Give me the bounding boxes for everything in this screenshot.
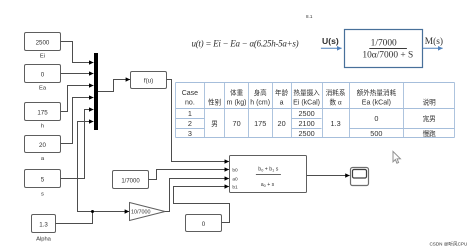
wire h to mux	[61, 86, 94, 112]
svg-text:1/7000: 1/7000	[121, 178, 140, 184]
blue arrow U(s) into picture block	[321, 47, 342, 49]
blue arrow M(s) out of picture block	[423, 47, 443, 49]
table grid	[176, 83, 455, 138]
wire a to mux	[61, 98, 94, 144]
svg-text:说明: 说明	[423, 97, 437, 106]
svg-text:Ea: Ea	[39, 86, 47, 92]
scope block	[351, 168, 369, 186]
svg-text:体重: 体重	[230, 88, 244, 97]
svg-text:2500: 2500	[298, 109, 314, 118]
wire Alpha branch to mux	[78, 122, 94, 212]
transfer function subsystem U1	[230, 156, 307, 193]
wire gain to a0	[165, 179, 229, 212]
constant block a (20)	[25, 136, 61, 163]
table data texts	[188, 109, 436, 138]
svg-text:a0 + s: a0 + s	[261, 182, 275, 188]
svg-text:500: 500	[370, 129, 382, 138]
constant block s (5)	[25, 170, 61, 198]
wire 0 to b1	[174, 187, 230, 223]
svg-text:5: 5	[41, 177, 45, 184]
svg-text:3: 3	[188, 129, 192, 138]
svg-text:b1: b1	[232, 185, 238, 191]
wire subsystem to scope	[307, 175, 350, 177]
svg-text:20: 20	[39, 142, 46, 149]
svg-text:慢跑: 慢跑	[423, 129, 437, 138]
picture transfer function box	[345, 30, 423, 68]
wire Alpha branch to gain	[93, 211, 130, 213]
svg-text:no.: no.	[185, 99, 195, 106]
wire f(u) to subsystem input 1	[167, 80, 229, 162]
svg-text:年龄: 年龄	[275, 88, 289, 97]
constant block 1/7000	[113, 171, 149, 189]
svg-text:2100: 2100	[298, 119, 314, 128]
wire 1/7000 to b0	[149, 170, 229, 180]
svg-text:a0: a0	[232, 176, 238, 182]
svg-text:CSDN @听风CPU: CSDN @听风CPU	[429, 241, 467, 248]
constant block h (175)	[25, 103, 61, 130]
svg-text:Case: Case	[182, 90, 198, 97]
svg-text:数 α: 数 α	[329, 97, 341, 106]
svg-text:宨男: 宨男	[423, 114, 436, 123]
svg-text:性别: 性别	[208, 97, 222, 106]
svg-text:Ei (kCal): Ei (kCal)	[293, 99, 320, 106]
svg-text:1.3: 1.3	[39, 221, 48, 228]
svg-text:s: s	[41, 192, 44, 198]
svg-text:1/7000: 1/7000	[371, 38, 397, 48]
svg-text:10α/7000 + S: 10α/7000 + S	[362, 50, 413, 60]
svg-text:2500: 2500	[36, 39, 50, 46]
svg-text:b0: b0	[232, 168, 238, 174]
constant block Ei (2500)	[25, 33, 61, 60]
svg-text:身高: 身高	[254, 88, 268, 97]
svg-text:0: 0	[202, 221, 206, 228]
svg-text:u(t) = Ei − Ea − α(6.25h-5a+s): u(t) = Ei − Ea − α(6.25h-5a+s)	[192, 38, 299, 48]
table header texts	[182, 88, 436, 106]
constant block 0	[186, 215, 222, 232]
svg-text:Ei: Ei	[40, 54, 45, 60]
svg-text:a: a	[280, 99, 284, 106]
constant block Alpha (1.3)	[32, 215, 56, 243]
svg-text:额外热量消耗: 额外热量消耗	[357, 88, 397, 97]
wire Ea to mux	[61, 73, 94, 75]
svg-text:8.1: 8.1	[306, 14, 313, 19]
wire s to mux	[61, 110, 94, 179]
svg-text:男: 男	[211, 120, 218, 128]
wire mux to f(u)	[98, 80, 130, 92]
svg-text:10/7000: 10/7000	[131, 210, 151, 216]
Fcn block f(u)	[131, 72, 167, 89]
mouse cursor	[393, 151, 400, 163]
svg-text:a: a	[41, 156, 45, 162]
svg-text:175: 175	[254, 119, 266, 128]
mux	[94, 53, 98, 130]
svg-text:热量摄入: 热量摄入	[293, 88, 320, 97]
svg-text:f(u): f(u)	[144, 77, 153, 84]
svg-text:2: 2	[188, 119, 192, 128]
svg-text:1.3: 1.3	[331, 119, 341, 128]
svg-text:1: 1	[188, 109, 192, 118]
svg-text:0: 0	[374, 114, 378, 123]
svg-text:U(s): U(s)	[322, 36, 339, 46]
gain block 10/7000	[130, 203, 166, 221]
svg-text:Ea (kCal): Ea (kCal)	[362, 99, 391, 106]
constant block Ea (0)	[25, 65, 61, 92]
wire Alpha trunk	[56, 212, 93, 224]
svg-text:175: 175	[37, 109, 48, 116]
svg-text:h (cm): h (cm)	[250, 99, 270, 106]
junction dot on Alpha wire	[91, 210, 94, 213]
svg-text:20: 20	[278, 119, 286, 128]
wire Ei to mux	[61, 42, 94, 63]
svg-text:2500: 2500	[298, 129, 314, 138]
svg-text:h: h	[41, 124, 44, 130]
svg-text:70: 70	[233, 119, 241, 128]
svg-text:M(s): M(s)	[425, 36, 443, 47]
svg-text:消耗系: 消耗系	[326, 88, 346, 97]
svg-text:0: 0	[41, 71, 45, 78]
svg-text:Alpha: Alpha	[36, 236, 52, 242]
svg-text:m (kg): m (kg)	[227, 99, 247, 106]
